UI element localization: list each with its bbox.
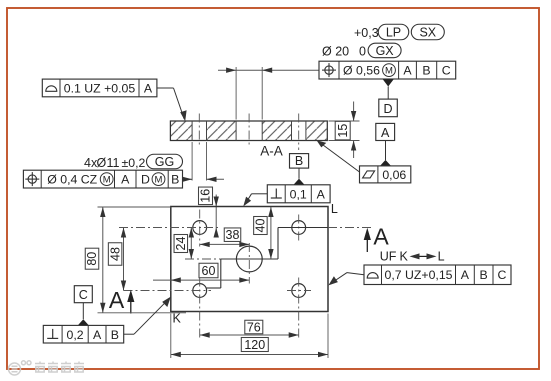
hole top-left dia11 xyxy=(193,221,207,235)
hole bottom-right dia11 xyxy=(292,284,306,298)
FCF perpendicularity 0,1 | A xyxy=(267,185,330,203)
FCF1 leader to bar top xyxy=(157,88,187,121)
svg-text:A: A xyxy=(317,187,326,201)
svg-text:0,06: 0,06 xyxy=(382,168,406,182)
svg-text:B: B xyxy=(171,173,179,187)
FCF position dia 0,56 (M) | A | B | C xyxy=(319,61,456,79)
FCF5 leader to plate left edge xyxy=(124,297,171,335)
svg-text:GX: GX xyxy=(376,44,395,58)
svg-text:80: 80 xyxy=(85,252,99,266)
boxed dimension 24 xyxy=(174,235,188,253)
svg-text:L: L xyxy=(331,202,338,216)
svg-text:K: K xyxy=(400,250,409,264)
dimension 80 extension lines xyxy=(98,207,187,313)
dia20 dimension line xyxy=(218,68,319,73)
boxed dimension 15 xyxy=(335,121,350,140)
svg-text:M: M xyxy=(385,65,393,76)
bar hole centerlines xyxy=(199,114,298,151)
svg-text:38: 38 xyxy=(226,228,240,242)
svg-text:SX: SX xyxy=(419,25,436,39)
boxed dimension 40 xyxy=(254,217,268,235)
svg-text:A: A xyxy=(144,81,153,95)
section letter A left xyxy=(109,287,125,313)
datum A triangle onto flatness frame xyxy=(380,141,391,166)
FCF4 leader to plate top edge xyxy=(243,194,267,207)
FCF surface profile 0,7 UZ+0,15 | A | B | C xyxy=(364,265,511,285)
oval GG xyxy=(147,154,183,169)
bottom-left hole centerlines xyxy=(124,278,212,339)
oval LP xyxy=(378,24,409,40)
oval SX xyxy=(411,24,444,40)
svg-text:0,7 UZ+0,15: 0,7 UZ+0,15 xyxy=(384,268,452,282)
svg-text:+0,3: +0,3 xyxy=(354,26,379,40)
svg-text:K: K xyxy=(173,312,182,326)
svg-text:11: 11 xyxy=(107,156,120,170)
svg-text:24: 24 xyxy=(174,237,188,251)
label A-A xyxy=(260,144,283,159)
svg-text:B: B xyxy=(422,64,430,78)
svg-text:A: A xyxy=(93,328,102,342)
svg-text:16: 16 xyxy=(199,189,213,203)
FCF6 pointer arrows at hole walls xyxy=(182,177,224,182)
center hole dia20 xyxy=(236,246,262,272)
dimension 24 line xyxy=(189,228,194,260)
text +0,3 xyxy=(354,26,379,40)
svg-text:A: A xyxy=(121,173,130,187)
label K at plate bottom left xyxy=(173,312,182,326)
dimension 80 line xyxy=(100,207,105,313)
hole top-right dia11 xyxy=(292,221,306,235)
svg-text:UF: UF xyxy=(380,250,397,264)
dimension 48 line xyxy=(121,228,126,291)
svg-text:GG: GG xyxy=(155,155,174,169)
svg-text:0,1: 0,1 xyxy=(290,187,307,201)
hole bottom-left dia11 xyxy=(193,284,207,298)
FCF7 leader to plate right edge xyxy=(328,273,364,286)
dimension 15 extension lines xyxy=(329,121,360,141)
datum C box xyxy=(74,286,92,303)
svg-text:A: A xyxy=(381,126,390,140)
datum B box xyxy=(290,154,309,169)
svg-text:Ø: Ø xyxy=(97,156,107,170)
datum C triangle onto FCF5 xyxy=(78,303,89,326)
section cut step line through holes xyxy=(207,228,328,289)
FCF surface profile 0.1 UZ +0.05 | A xyxy=(42,79,157,97)
boxed dimension 80 xyxy=(85,248,99,269)
svg-text:LP: LP xyxy=(386,25,401,39)
section letter A right xyxy=(373,224,389,250)
svg-text:76: 76 xyxy=(247,320,261,334)
svg-text:0.1 UZ +0.05: 0.1 UZ +0.05 xyxy=(64,81,136,95)
svg-text:0: 0 xyxy=(359,45,366,59)
watermark bottom left xyxy=(9,361,85,375)
boxed dimension 76 xyxy=(245,320,263,334)
dimension 16 line and arrows xyxy=(214,195,219,238)
main plate outline xyxy=(171,207,328,312)
center hole centerlines xyxy=(185,243,249,284)
svg-text:Ø 20: Ø 20 xyxy=(322,45,349,59)
section bar A-A outline with hatching xyxy=(170,121,327,141)
svg-text:B: B xyxy=(479,268,487,282)
datum D triangle and box xyxy=(379,79,398,117)
dimension 38 line xyxy=(200,242,250,247)
text dia20 0 xyxy=(322,45,366,59)
svg-text:B: B xyxy=(111,328,119,342)
boxed dimension 48 xyxy=(108,243,122,266)
oval GX xyxy=(368,43,401,58)
svg-text:C: C xyxy=(442,64,451,78)
svg-text:A: A xyxy=(109,287,125,313)
svg-text:60: 60 xyxy=(202,264,216,278)
svg-text:A: A xyxy=(461,268,470,282)
svg-text:120: 120 xyxy=(244,338,265,352)
FCF3 leader to bar bottom xyxy=(317,140,360,172)
boxed dimension 60 xyxy=(199,263,218,278)
svg-text:A: A xyxy=(403,64,412,78)
svg-text:0,2: 0,2 xyxy=(67,328,84,342)
svg-text:C: C xyxy=(498,268,507,282)
top-right hole centerline vertical xyxy=(298,215,300,241)
FCF position dia 0,4 CZ (M) | A | D(M) | B xyxy=(23,170,182,188)
boxed dimension 120 xyxy=(241,338,268,352)
boxed dimension 16 xyxy=(199,187,213,205)
extension lines of left hole walls below bar xyxy=(192,142,206,181)
svg-text:Ø 0,56: Ø 0,56 xyxy=(343,64,380,78)
annotation UF K between L xyxy=(380,250,445,264)
svg-text:D: D xyxy=(141,173,150,187)
svg-text:B: B xyxy=(295,154,303,168)
boxed dimension 38 xyxy=(224,228,241,242)
svg-text:A: A xyxy=(373,224,389,250)
dimension 15 line and arrows xyxy=(351,102,356,159)
datum B triangle onto FCF4 xyxy=(294,168,305,185)
section arrow A left xyxy=(127,290,134,314)
top-left hole centerlines xyxy=(119,210,219,247)
svg-text:M: M xyxy=(103,174,111,185)
svg-text:40: 40 xyxy=(254,219,268,233)
extension lines of center hole walls above bar xyxy=(236,67,262,120)
svg-text:M: M xyxy=(155,174,163,185)
datum A box xyxy=(376,123,395,140)
svg-text:48: 48 xyxy=(108,247,122,261)
svg-text:C: C xyxy=(79,288,88,302)
svg-text:D: D xyxy=(383,102,392,116)
top-right hole centerline to section arrow xyxy=(328,227,373,229)
bottom-right hole centerlines xyxy=(287,278,311,339)
dimension 120 extension lines xyxy=(171,314,328,359)
dimension 60 line xyxy=(153,277,249,282)
svg-text:L: L xyxy=(438,250,445,264)
FCF flatness 0,06 xyxy=(360,166,411,183)
svg-text:±0,2: ±0,2 xyxy=(122,156,146,170)
dimension 120 line xyxy=(171,352,328,357)
svg-text:A-A: A-A xyxy=(260,144,283,159)
svg-text:15: 15 xyxy=(336,124,350,138)
section arrow A right xyxy=(364,228,371,252)
dimension 76 line xyxy=(200,332,299,337)
svg-text:Ø 0,4 CZ: Ø 0,4 CZ xyxy=(47,173,97,187)
label L at plate top right xyxy=(331,202,338,216)
dimension 40 line xyxy=(268,207,273,259)
text 4x dia11 +-0,2 xyxy=(84,156,146,170)
FCF perpendicularity 0,2 | A | B xyxy=(43,325,123,343)
